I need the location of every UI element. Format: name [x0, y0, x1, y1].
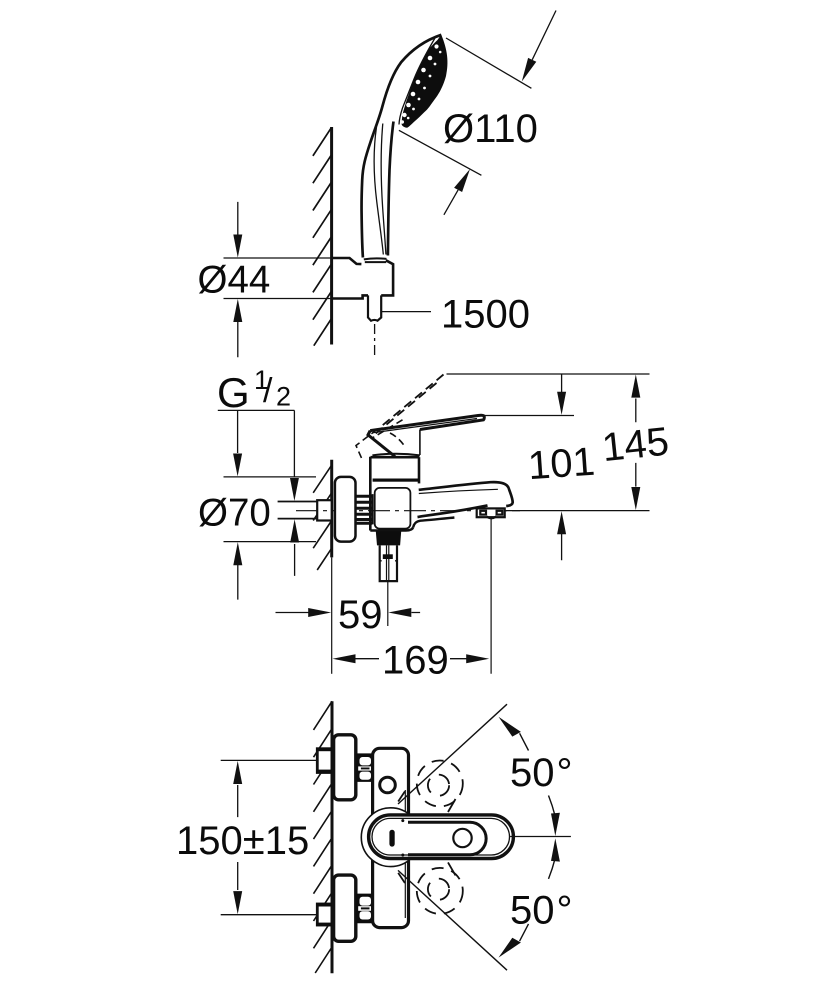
G 1/2 leader line — [218, 409, 295, 411]
lever slot (black) — [389, 830, 394, 847]
svg-text:1500: 1500 — [441, 293, 530, 337]
svg-text:59: 59 — [338, 593, 383, 637]
Ø70 extension lines — [224, 477, 317, 542]
dashed lever arm down (50°) — [398, 862, 463, 914]
lever dots — [401, 819, 404, 822]
shower head spray face (dark strip) — [401, 35, 448, 128]
spout underside from body — [413, 518, 454, 528]
holder cap ring under handle — [364, 258, 387, 262]
lever (middle, horizontal position) — [368, 415, 484, 456]
flange (middle, side view) — [335, 477, 356, 542]
hex nut (bottom, upper) — [356, 753, 376, 782]
svg-text:Ø44: Ø44 — [198, 258, 271, 301]
tailpiece nut (black) — [376, 531, 401, 545]
shower head rim line — [399, 38, 435, 125]
svg-text:169: 169 — [382, 638, 449, 682]
supply centerline (dash-dot) — [296, 510, 520, 512]
lever hole — [453, 829, 471, 847]
150±15 arrows — [233, 761, 242, 914]
lever boss circle — [361, 808, 420, 867]
50° lower arrow at centerline — [551, 838, 560, 861]
svg-text:2: 2 — [276, 382, 291, 412]
hex union with ribs — [356, 494, 373, 524]
svg-text:Ø70: Ø70 — [198, 492, 271, 535]
dimension Ø110 line (lower) — [399, 130, 482, 215]
svg-text:G: G — [217, 369, 250, 416]
wall (bottom section) — [331, 701, 334, 973]
tailpiece — [380, 545, 397, 581]
svg-text:°: ° — [557, 751, 573, 795]
50° lower arc arrow — [499, 938, 521, 958]
50° upper reference line — [398, 704, 507, 804]
flanges (bottom front view) — [334, 735, 356, 800]
G 1/2 text — [217, 365, 291, 416]
lever (front view, horizontal) — [369, 815, 514, 859]
hand shower handle outline — [362, 35, 442, 258]
extension of wall line down to 169 dimension — [331, 557, 333, 673]
cartridge dome under lever — [372, 454, 420, 456]
lever raised position (dashed) — [375, 375, 444, 435]
dimension Ø44 arrows — [233, 202, 242, 357]
svg-text:150±15: 150±15 — [176, 819, 309, 863]
wall hatching (bottom) — [314, 701, 333, 973]
svg-text:Ø110: Ø110 — [443, 107, 538, 151]
50° upper arc arrow — [499, 717, 521, 737]
dimension 59 — [276, 608, 421, 617]
hose connector below holder — [368, 295, 381, 320]
aerator — [477, 508, 505, 518]
G 1/2 arrows (to pipe) — [290, 410, 299, 576]
mixer body (bottom front view) — [373, 748, 409, 927]
supply squares (bottom) — [317, 749, 332, 773]
Ø70 arrows — [233, 410, 242, 599]
dimension 101 arrows — [557, 374, 566, 560]
dashed lever arm up (50°) — [398, 761, 463, 813]
svg-text:50: 50 — [510, 751, 555, 795]
handle inner seam lines — [374, 124, 386, 255]
body circle — [380, 777, 396, 793]
dimension 169 — [490, 517, 492, 674]
svg-text:/: / — [263, 372, 273, 410]
spout — [418, 482, 513, 517]
wall holder — [332, 258, 394, 299]
black seal band — [373, 479, 419, 482]
centerline to 50° vertex — [510, 836, 571, 838]
150±15 extension lines — [221, 760, 318, 914]
supply pipe in wall — [278, 502, 318, 519]
dimension Ø110 upper arrow — [522, 58, 537, 82]
dimension 1500 leader line — [381, 311, 431, 313]
145/101 extension lines — [447, 374, 650, 511]
wall (top section) — [330, 127, 333, 345]
tailpiece centerline — [387, 581, 389, 626]
dimension 145 arrows — [631, 375, 640, 511]
50° lower reference line — [398, 870, 507, 970]
lever grip — [408, 822, 486, 855]
50° lower arc segments — [549, 858, 556, 879]
wall (middle section) — [330, 460, 333, 558]
inner body panel — [375, 488, 411, 529]
hose centerline (dash-dot) — [374, 324, 376, 356]
svg-text:101: 101 — [527, 440, 597, 489]
hex nut (bottom, lower) — [356, 894, 376, 924]
supply pipe square — [317, 500, 332, 520]
svg-text:°: ° — [557, 888, 573, 932]
spout inner line — [419, 489, 498, 493]
dimension Ø110 line (upper) — [446, 11, 556, 89]
50° upper arrow at centerline — [551, 813, 560, 836]
svg-text:145: 145 — [600, 419, 671, 470]
dimension Ø44 extension lines — [224, 258, 332, 299]
svg-text:50: 50 — [510, 888, 555, 932]
50° upper arc segments — [549, 796, 556, 817]
dimension Ø110 lower arrow — [454, 169, 470, 192]
wall hatching (top) — [313, 127, 332, 345]
faucet body (middle) — [370, 457, 419, 531]
wall hatching (middle) — [313, 465, 332, 570]
